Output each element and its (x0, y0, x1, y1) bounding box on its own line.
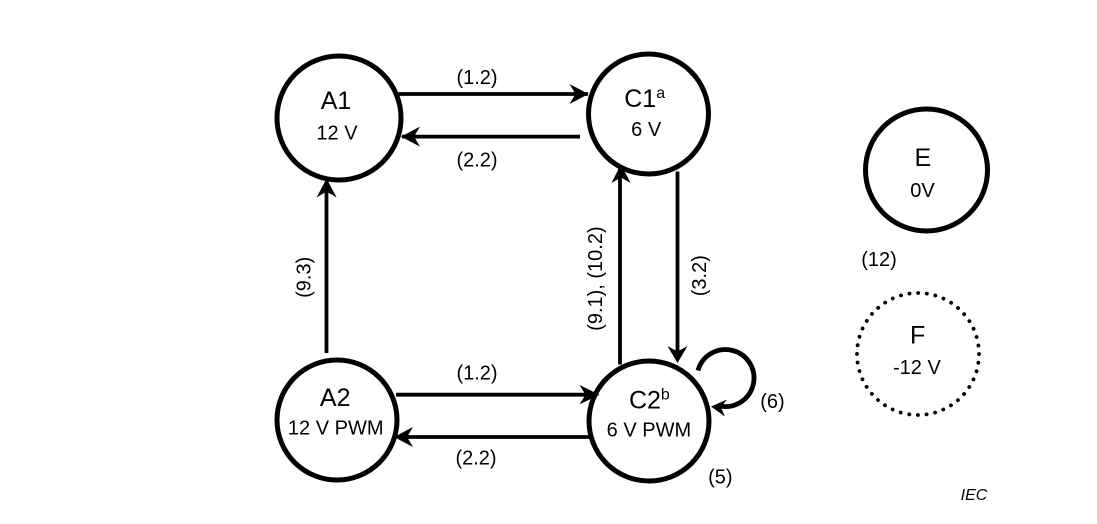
svg-text:6 V PWM: 6 V PWM (607, 419, 691, 441)
svg-text:A1: A1 (321, 87, 352, 115)
svg-text:(3.2): (3.2) (689, 255, 711, 296)
svg-text:(2.2): (2.2) (455, 448, 496, 470)
svg-text:(12): (12) (861, 249, 897, 271)
svg-text:(6): (6) (760, 391, 784, 413)
svg-text:(1.2): (1.2) (456, 67, 497, 89)
svg-text:12 V PWM: 12 V PWM (288, 417, 384, 439)
svg-text:F: F (910, 322, 925, 350)
svg-text:E: E (915, 144, 932, 172)
svg-text:0V: 0V (910, 180, 935, 202)
svg-text:(9.1), (10.2): (9.1), (10.2) (585, 226, 607, 330)
svg-text:12 V: 12 V (316, 123, 358, 145)
svg-text:(5): (5) (708, 466, 732, 488)
svg-text:(2.2): (2.2) (456, 150, 497, 172)
svg-text:-12 V: -12 V (893, 357, 941, 379)
svg-text:6 V: 6 V (631, 119, 662, 141)
svg-text:(1.2): (1.2) (456, 363, 497, 385)
svg-text:IEC: IEC (961, 487, 988, 504)
svg-text:A2: A2 (320, 384, 351, 412)
svg-text:(9.3): (9.3) (294, 257, 316, 298)
